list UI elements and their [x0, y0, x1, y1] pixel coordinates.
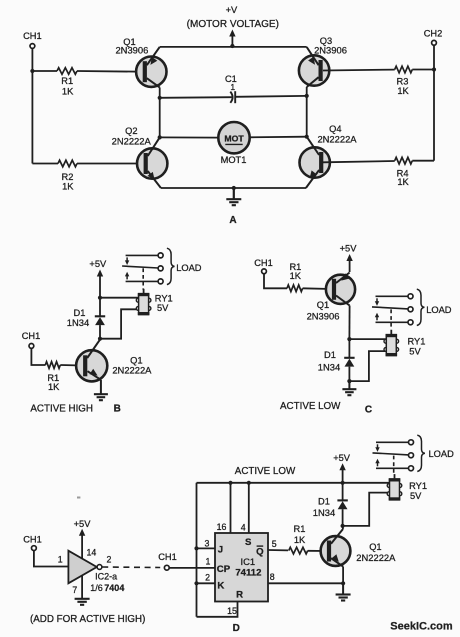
svg-text:IC1: IC1	[241, 556, 256, 567]
node junction +5V rail/D1	[341, 481, 345, 485]
svg-text:ACTIVE HIGH: ACTIVE HIGH	[30, 404, 93, 415]
svg-text:2N3906: 2N3906	[314, 45, 347, 56]
node CH1 terminal (circuit B)	[22, 331, 41, 348]
svg-text:C: C	[365, 405, 372, 416]
diode D1 1N34 (circuit B)	[67, 298, 105, 339]
IC U1 74112 J-K flip-flop	[204, 533, 276, 602]
svg-text:R2: R2	[62, 172, 74, 182]
wire Q1 collector down	[348, 306, 350, 340]
wire Q1 collector to left motor node	[159, 87, 161, 97]
svg-text:R1: R1	[61, 76, 73, 86]
wire left pull-up rail	[196, 483, 198, 617]
svg-text:1: 1	[205, 556, 210, 566]
svg-text:1K: 1K	[397, 177, 409, 187]
svg-text:MOT: MOT	[224, 134, 244, 144]
svg-text:8: 8	[270, 572, 275, 582]
resistor R2 1K	[58, 160, 77, 191]
wire R2 to Q2 base	[77, 163, 144, 165]
node CH1 terminal (at IC1 CP)	[158, 552, 177, 570]
svg-text:16: 16	[217, 522, 227, 532]
wire CP input	[169, 567, 215, 569]
svg-text:1K: 1K	[48, 382, 60, 392]
node junction D1/collector/RY1	[341, 524, 345, 528]
svg-text:Q4: Q4	[329, 124, 341, 134]
wire R2 from CH1	[32, 163, 58, 165]
ground (circuit A)	[226, 186, 241, 205]
wire R1 to Q1 base	[308, 550, 327, 552]
svg-text:RY1: RY1	[155, 294, 173, 304]
motor MOT1	[218, 122, 249, 165]
svg-text:1K: 1K	[290, 271, 302, 281]
resistor R1 1K (circuit B)	[45, 362, 60, 392]
transistor Q4 2N2222A (NPN)	[300, 124, 358, 188]
node left motor node top	[158, 96, 162, 100]
svg-text:S: S	[245, 537, 252, 548]
svg-text:Q1: Q1	[369, 542, 381, 552]
svg-text:7: 7	[72, 585, 77, 595]
svg-text:J: J	[218, 545, 223, 556]
wire CH1 vertical	[31, 48, 33, 163]
node CH1 terminal (circuit D input)	[23, 534, 42, 550]
svg-text:5: 5	[272, 539, 277, 549]
node left motor node bottom	[158, 135, 162, 139]
svg-text:15: 15	[227, 606, 237, 616]
svg-text:B: B	[114, 404, 121, 415]
svg-text:1: 1	[58, 555, 63, 565]
wire CH1 to R1	[31, 348, 45, 365]
svg-text:2N2222A: 2N2222A	[317, 133, 357, 144]
svg-text:+5V: +5V	[74, 519, 92, 529]
stray mark	[77, 497, 80, 499]
resistor R1 1K	[57, 68, 77, 97]
svg-text:2N2222A: 2N2222A	[112, 136, 152, 147]
wire C1 row left	[160, 96, 232, 99]
capacitor C1 1	[225, 74, 237, 103]
svg-text:Q1: Q1	[317, 300, 329, 310]
wire RY1 coil bottom to ground node	[349, 351, 386, 381]
wire Q3 collector to right motor node	[306, 87, 308, 96]
transistor Q3 2N3906 (PNP)	[299, 36, 347, 87]
svg-text:ACTIVE LOW: ACTIVE LOW	[280, 401, 341, 412]
wire J input	[197, 547, 216, 549]
svg-text:CP: CP	[217, 564, 231, 575]
wire pin8 to emitter/ground	[268, 582, 343, 584]
svg-text:4: 4	[241, 523, 246, 533]
node junction emitter/pin8/ground	[341, 581, 345, 585]
wire ground rail bottom	[161, 187, 306, 189]
wire +5V to RY1 coil top	[100, 297, 139, 299]
node CH1 terminal (circuit C)	[254, 258, 273, 274]
svg-text:5V: 5V	[157, 303, 169, 313]
op-amp IC2-a 1/6 7404 inverter	[58, 547, 125, 595]
svg-text:14: 14	[87, 547, 97, 557]
wire inverter output (dashed)	[102, 566, 160, 569]
ground (circuit D transistor)	[336, 583, 351, 600]
node junction collector/D1/RY1	[347, 337, 351, 341]
svg-text:CH1: CH1	[23, 31, 42, 41]
power +V arrow (motor voltage)	[187, 5, 279, 48]
wire D1 node to RY1 coil bottom	[343, 493, 390, 526]
svg-text:D: D	[233, 623, 240, 634]
svg-text:RY1: RY1	[408, 336, 426, 346]
svg-text:LOAD: LOAD	[426, 305, 452, 315]
wire +5V rail (section D)	[197, 482, 390, 484]
svg-text:D1: D1	[318, 496, 330, 506]
svg-text:MOT1: MOT1	[221, 155, 247, 165]
power +5V (circuit B)	[89, 259, 107, 298]
svg-text:1K: 1K	[294, 535, 306, 545]
relay coil RY1 5V (circuit D)	[387, 474, 427, 501]
node right motor node bottom	[305, 135, 309, 139]
wire right motor node vertical	[306, 96, 308, 137]
wire CH1 to inverter input	[34, 551, 69, 567]
node junction D1/ground	[347, 379, 351, 383]
svg-text:K: K	[217, 581, 224, 592]
power +5V (circuit D)	[333, 453, 351, 483]
wire collector node to RY1 coil top	[349, 338, 386, 340]
svg-text:IC2-a: IC2-a	[95, 572, 117, 582]
node junction CH1/R1	[30, 69, 34, 73]
relay coil RY1 5V (circuit C)	[384, 330, 425, 357]
svg-text:74112: 74112	[235, 568, 261, 579]
power +5V (inverter pin 14)	[74, 519, 92, 558]
svg-text:+5V: +5V	[89, 259, 107, 269]
node junction pin16/rail	[228, 481, 232, 485]
wire R1 to Q1 base	[77, 70, 143, 73]
node junction K/rail	[194, 581, 198, 585]
wire R1 to Q1 base	[60, 364, 82, 367]
power +5V (circuit C)	[340, 244, 358, 273]
svg-text:CH2: CH2	[424, 29, 443, 39]
wire CH1 to R1	[32, 70, 57, 72]
svg-text:LOAD: LOAD	[429, 449, 455, 459]
relay coil RY1 5V (circuit B)	[136, 289, 172, 315]
node junction D1/collector	[98, 337, 102, 341]
wire K input	[197, 582, 216, 584]
svg-text:1/6: 1/6	[90, 583, 103, 593]
relay contacts LOAD (circuit D)	[373, 435, 455, 471]
svg-text:2N2222A: 2N2222A	[356, 552, 396, 563]
wire relay armature (dashed)	[142, 268, 144, 289]
wire relay armature (dashed, circuit D)	[393, 456, 395, 475]
svg-text:2: 2	[205, 573, 210, 583]
wire Q3 base to R3	[323, 69, 395, 72]
node right motor node top	[305, 94, 309, 98]
svg-text:D1: D1	[324, 350, 336, 360]
ground (inverter pin 7)	[75, 575, 90, 604]
svg-text:1: 1	[230, 82, 235, 92]
svg-text:+5V: +5V	[333, 453, 351, 463]
wire Q4 base to R4	[323, 161, 395, 162]
svg-text:2N2222A: 2N2222A	[112, 364, 152, 375]
svg-text:+V: +V	[226, 5, 238, 15]
wire pin16	[230, 483, 232, 533]
svg-text:CH1: CH1	[254, 258, 273, 268]
wire Q1 emitter down	[342, 567, 344, 584]
wire pin4	[248, 483, 250, 533]
svg-text:1K: 1K	[62, 87, 74, 97]
wire left motor node vertical	[159, 98, 161, 138]
svg-text:R1: R1	[294, 524, 306, 534]
svg-text:SeekIC.com: SeekIC.com	[390, 620, 453, 632]
svg-text:ACTIVE LOW: ACTIVE LOW	[235, 466, 296, 477]
svg-text:R3: R3	[397, 76, 409, 86]
svg-text:5V: 5V	[409, 346, 421, 356]
resistor R4 1K	[395, 157, 413, 187]
svg-text:Q2: Q2	[125, 126, 137, 136]
wire CH1 to R1	[264, 274, 287, 289]
svg-text:2N3906: 2N3906	[307, 310, 340, 321]
ground (circuit C)	[342, 381, 356, 395]
wire R4 to CH2 rail	[412, 160, 434, 162]
svg-text:(MOTOR VOLTAGE): (MOTOR VOLTAGE)	[187, 19, 279, 30]
transistor Q1 2N3906 (PNP)	[115, 37, 166, 87]
svg-text:CH1: CH1	[23, 534, 42, 544]
svg-text:2: 2	[106, 555, 111, 565]
svg-text:R: R	[236, 590, 243, 601]
node junction J/rail	[194, 546, 198, 550]
diode D1 1N34 (circuit C)	[318, 339, 355, 381]
transistor Q2 2N2222A (NPN)	[112, 126, 168, 188]
resistor R1 1K (circuit D)	[289, 524, 308, 554]
svg-text:RY1: RY1	[409, 481, 427, 491]
wire RY1 coil bottom to collector node	[100, 309, 139, 338]
svg-text:LOAD: LOAD	[176, 263, 202, 273]
wire pin15 bottom	[197, 602, 238, 617]
wire Q-bar pin5 to R1	[268, 549, 288, 551]
svg-text:+5V: +5V	[340, 244, 358, 254]
node junction +5V/RY1	[98, 296, 102, 300]
svg-text:2N3906: 2N3906	[115, 45, 148, 56]
wire C1 row right	[235, 95, 307, 98]
svg-text:CH1: CH1	[22, 331, 41, 341]
transistor Q1 2N2222A (circuit D)	[321, 529, 397, 567]
resistor R1 1K (circuit C)	[287, 262, 303, 292]
svg-text:(ADD FOR ACTIVE HIGH): (ADD FOR ACTIVE HIGH)	[30, 614, 145, 625]
relay contacts LOAD (circuit B)	[122, 248, 202, 284]
svg-text:1N34: 1N34	[318, 361, 340, 372]
transistor Q1 2N2222A (circuit B)	[76, 339, 152, 382]
svg-text:A: A	[229, 215, 236, 226]
diode D1 1N34 (circuit D)	[313, 483, 348, 526]
wire motor row right	[250, 136, 307, 139]
node CH2 terminal	[424, 29, 443, 46]
wire CH2 vertical	[433, 45, 435, 161]
svg-text:1K: 1K	[397, 86, 409, 96]
resistor R3 1K	[395, 66, 413, 96]
wire R1 to Q1 base	[303, 287, 332, 290]
relay contacts LOAD (circuit C)	[372, 289, 452, 325]
transistor Q1 2N3906 (circuit C)	[307, 273, 356, 322]
svg-text:1N34: 1N34	[67, 317, 89, 328]
node junction pin4/rail	[247, 481, 251, 485]
svg-text:1N34: 1N34	[313, 507, 335, 518]
wire +V top rail	[160, 46, 307, 48]
wire relay armature (dashed)	[390, 309, 392, 329]
svg-text:1K: 1K	[62, 181, 74, 191]
svg-text:7404: 7404	[104, 583, 124, 593]
wire motor row left	[160, 136, 219, 138]
svg-text:3: 3	[204, 538, 209, 548]
svg-text:Q: Q	[256, 547, 264, 558]
node CH1 terminal (circuit A)	[23, 31, 42, 48]
node junction R3/CH2	[432, 67, 436, 71]
svg-text:5V: 5V	[410, 491, 422, 501]
svg-text:CH1: CH1	[158, 552, 177, 562]
ground (circuit B)	[94, 380, 108, 400]
wire Q1 collector to D1 node	[342, 526, 344, 529]
wire R3 to CH2 rail	[412, 69, 434, 71]
